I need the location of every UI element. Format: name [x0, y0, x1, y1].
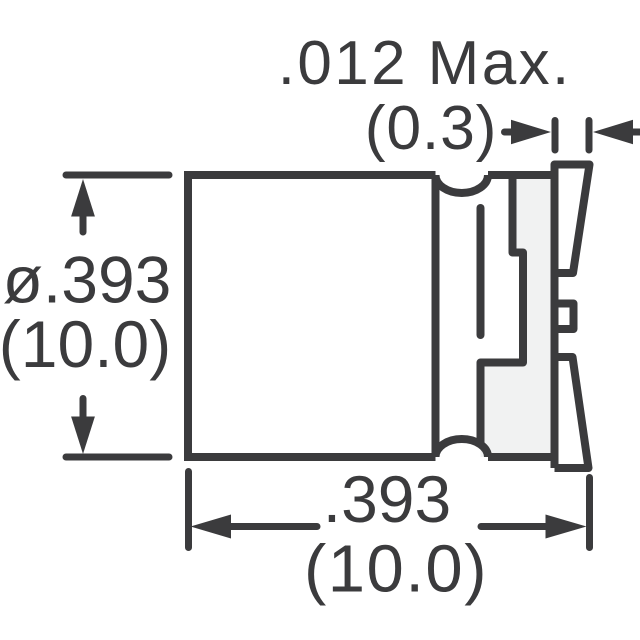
svg-text:(0.3): (0.3): [365, 93, 498, 163]
svg-text:(10.0): (10.0): [304, 532, 488, 607]
svg-text:(10.0): (10.0): [0, 307, 171, 381]
svg-text:ø.393: ø.393: [3, 243, 172, 317]
svg-text:.012 Max.: .012 Max.: [278, 29, 572, 98]
svg-text:.393: .393: [323, 462, 451, 536]
